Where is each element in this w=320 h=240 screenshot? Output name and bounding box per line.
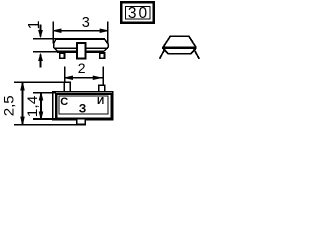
dimension label 1,4 (24, 95, 40, 117)
lower left slope (164, 49, 169, 54)
left chamfer (54, 39, 57, 44)
lower right slope (190, 49, 195, 54)
right lead (side view) (100, 53, 105, 58)
bottom-left chamfer (54, 47, 58, 51)
body bottom edge (57, 51, 104, 53)
right leg (194, 49, 199, 59)
body middle thick rect (56, 94, 111, 118)
right waist edge (107, 44, 109, 48)
extension line top (body top ext) (33, 38, 57, 40)
bottom-right chamfer (104, 47, 108, 51)
svg-text:3: 3 (82, 15, 90, 31)
body inner thin rect (59, 96, 108, 114)
top edge (170, 35, 190, 37)
extension line body top (33, 92, 56, 94)
upper left slope (163, 36, 170, 47)
svg-text:И: И (97, 96, 104, 107)
dimension line 3 (53, 29, 108, 32)
svg-text:30: 30 (128, 5, 149, 22)
left lead (side view) (60, 53, 65, 58)
svg-text:2,5: 2,5 (0, 95, 16, 116)
left leg (160, 49, 165, 59)
extension line body bottom (33, 118, 56, 120)
dimension label 1 (26, 20, 43, 29)
right top lead (99, 85, 105, 92)
waist line right part (87, 47, 109, 49)
svg-text:С: С (60, 96, 68, 108)
bottom edge (168, 53, 191, 55)
left top lead (64, 82, 70, 92)
extension line right for 3 (107, 22, 109, 44)
middle lead (side view) (77, 43, 86, 58)
dimension line 1,4 (39, 93, 42, 119)
bottom lead (77, 120, 86, 125)
body top edge (56, 38, 106, 40)
waist line left part (54, 47, 77, 49)
dimension label 2,5 (0, 95, 16, 116)
svg-text:2: 2 (78, 60, 86, 76)
upper right slope (189, 36, 196, 47)
svg-text:З: З (79, 101, 87, 115)
extension line bottom (body bottom ext) (33, 51, 57, 53)
body outer thin rect (53, 92, 113, 120)
left waist edge (53, 44, 55, 48)
svg-text:1,4: 1,4 (24, 95, 40, 117)
extension line left for 3 (52, 22, 54, 44)
extension line top (lead top) (14, 81, 64, 83)
extension line right (102, 67, 104, 85)
right chamfer (105, 39, 109, 44)
extension line bottom (lead bottom) (14, 124, 77, 126)
dimension line 2,5 (21, 82, 24, 125)
waist band (162, 46, 197, 49)
dimension line for 1 (39, 24, 43, 67)
package body (side view) (54, 39, 109, 52)
dimension line 2 (65, 76, 104, 79)
extension line left (64, 67, 66, 82)
